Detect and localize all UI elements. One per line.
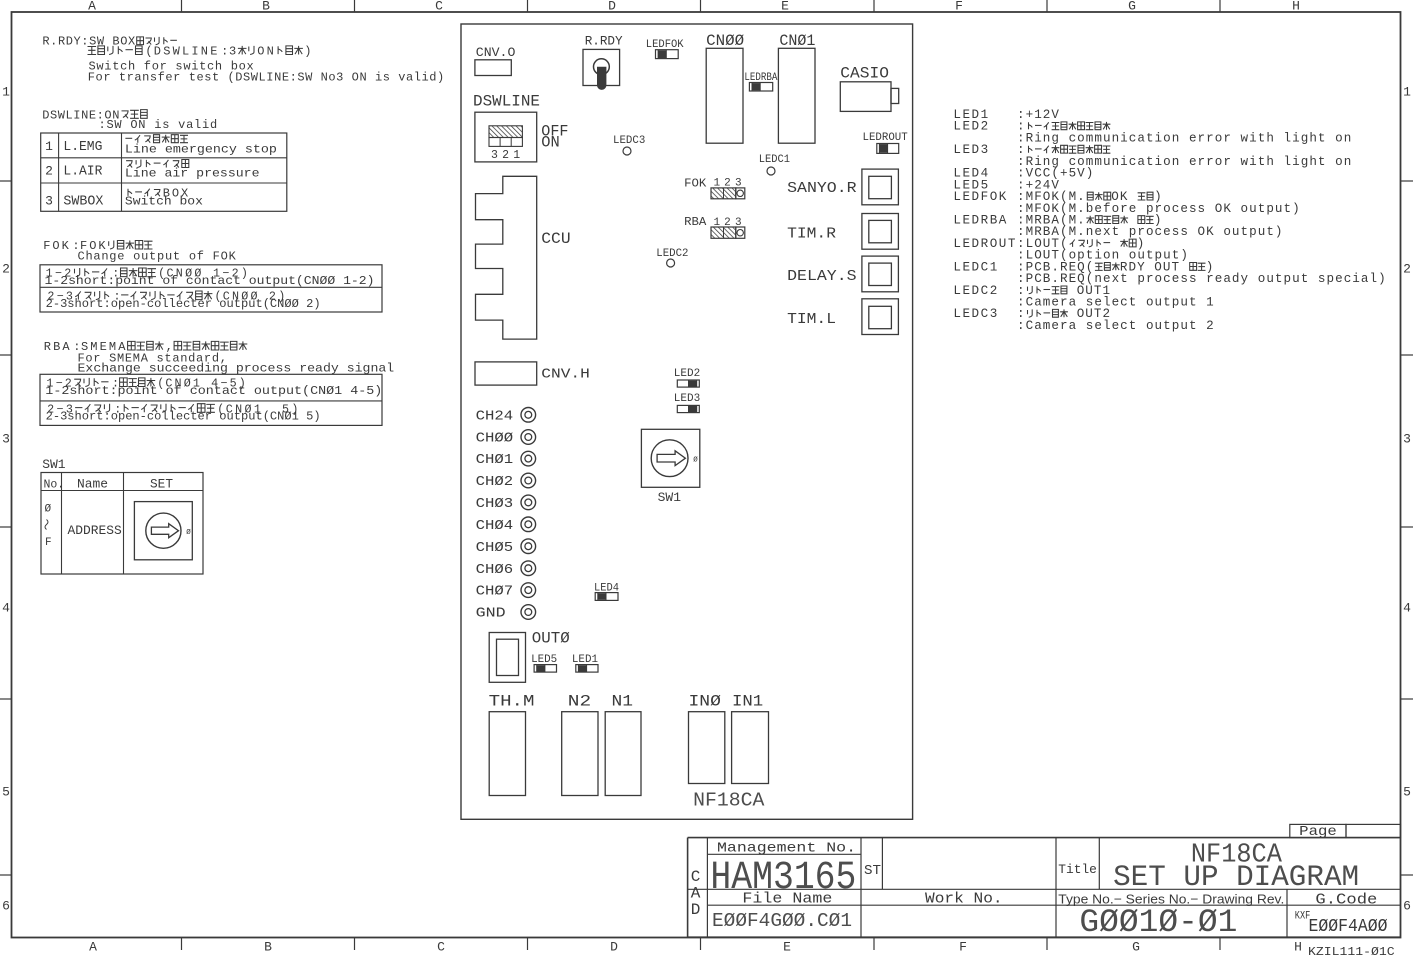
svg-text::: : xyxy=(221,45,229,59)
title block File Name xyxy=(742,892,832,908)
note R.RDY line4 xyxy=(88,71,445,85)
connector SANYO.R label xyxy=(787,180,857,197)
svg-text:LED3: LED3 xyxy=(953,143,989,157)
svg-text:SW1: SW1 xyxy=(658,490,682,505)
svg-text:NF18CA: NF18CA xyxy=(693,790,765,812)
svg-text:(: ( xyxy=(145,45,153,59)
svg-text:N1: N1 xyxy=(612,693,634,711)
connector TIM.R label xyxy=(787,226,836,243)
svg-text:3: 3 xyxy=(229,45,238,59)
dip switch OFF ON labels xyxy=(541,122,568,151)
svg-text:2: 2 xyxy=(1403,262,1411,277)
jumper RBA label xyxy=(684,215,742,229)
note R.RDY line1 xyxy=(42,35,177,49)
dip switch DSWLINE label xyxy=(473,93,540,111)
title block Management No. xyxy=(717,841,856,857)
svg-text:TIM.L: TIM.L xyxy=(787,311,836,328)
svg-text:Change output of FOK: Change output of FOK xyxy=(78,249,237,263)
svg-text:L.AIR: L.AIR xyxy=(63,165,102,180)
svg-text:ADDRESS: ADDRESS xyxy=(68,523,123,538)
table DSWLINE row1 xyxy=(45,135,277,157)
svg-text:5: 5 xyxy=(1403,785,1411,800)
legend LEDROUT jp xyxy=(953,237,1145,251)
title NF18CA xyxy=(1191,841,1283,871)
LED LED1 label xyxy=(572,654,598,666)
legend LEDRBA jp xyxy=(953,214,1162,228)
svg-text:Title: Title xyxy=(1058,862,1097,877)
title block G code value xyxy=(1309,917,1388,937)
table SW1 header xyxy=(44,477,174,492)
svg-text:DSWLINE: DSWLINE xyxy=(154,45,220,59)
connector CN00 label xyxy=(706,32,744,50)
svg-text:2: 2 xyxy=(45,164,53,179)
dip switch DSWLINE xyxy=(475,112,537,162)
svg-text:R.RDY: R.RDY xyxy=(585,34,623,49)
LED LEDRBA xyxy=(749,83,772,92)
svg-text:FOK: FOK xyxy=(43,239,71,253)
svg-text:CNØØ: CNØØ xyxy=(706,32,744,50)
svg-text:SWBOX: SWBOX xyxy=(63,194,103,209)
svg-text:RBA: RBA xyxy=(44,340,72,354)
document number KZIL111-01C xyxy=(1308,945,1395,958)
svg-text:2: 2 xyxy=(2,262,10,277)
legend LED1 xyxy=(953,108,1060,122)
LED LEDFOK xyxy=(656,50,679,59)
svg-text:A: A xyxy=(691,885,701,903)
svg-text:EØØF4AØØ: EØØF4AØØ xyxy=(1309,917,1388,937)
connector SANYO.R xyxy=(862,169,899,205)
test point LEDC2 label xyxy=(656,248,688,260)
connector N2 label xyxy=(568,693,591,711)
title block drawing number xyxy=(1079,904,1237,941)
connector DELAY.S xyxy=(862,256,899,292)
PCB board outline xyxy=(461,24,913,819)
jumper FOK label xyxy=(684,177,742,191)
svg-text:1: 1 xyxy=(1403,85,1411,100)
svg-text:LEDC3: LEDC3 xyxy=(613,135,645,147)
svg-text:G: G xyxy=(1132,940,1140,955)
connector IN1 label xyxy=(732,693,763,711)
svg-text:Exchange succeeding process re: Exchange succeeding process ready signal xyxy=(78,361,395,375)
LED LED5 xyxy=(534,665,556,673)
svg-text:D: D xyxy=(610,940,618,955)
svg-text:5: 5 xyxy=(2,785,10,800)
svg-text:B: B xyxy=(262,0,270,14)
board name NF18CA xyxy=(693,790,765,812)
connector CNV.H xyxy=(475,362,537,385)
label SW1 table xyxy=(42,457,66,472)
test pad CH24 xyxy=(521,408,536,423)
svg-text:File Name: File Name xyxy=(742,892,832,908)
svg-text:N2: N2 xyxy=(568,693,591,711)
svg-text:Work No.: Work No. xyxy=(925,892,1003,908)
svg-text:G.Code: G.Code xyxy=(1315,893,1377,909)
svg-text:TH.M: TH.M xyxy=(489,693,535,711)
svg-text:F: F xyxy=(955,0,963,14)
legend LEDFOK jp xyxy=(953,190,1162,204)
svg-text:SET: SET xyxy=(150,477,173,492)
svg-text:Ø: Ø xyxy=(186,528,191,537)
legend LED5 xyxy=(953,178,1060,192)
svg-text:ON: ON xyxy=(257,45,276,59)
title block Title label xyxy=(1058,862,1097,877)
test pad CH03 label xyxy=(476,496,514,512)
svg-text:Name: Name xyxy=(77,477,108,492)
svg-text:LEDROUT: LEDROUT xyxy=(953,237,1017,251)
grid column letters bottom xyxy=(89,940,1302,955)
page box xyxy=(1290,824,1401,840)
svg-text:ST: ST xyxy=(864,863,881,879)
connector IN0 xyxy=(689,712,725,784)
svg-text:Line air pressure: Line air pressure xyxy=(125,167,260,181)
svg-text:3: 3 xyxy=(491,149,498,162)
connector N1 xyxy=(605,712,641,796)
svg-text:2: 2 xyxy=(502,149,509,162)
legend LEDC1 en xyxy=(1017,272,1387,286)
svg-text:LED3: LED3 xyxy=(674,393,700,405)
legend LEDC3 en xyxy=(1017,319,1215,333)
note FOK line2 xyxy=(78,249,237,263)
svg-text:CHØØ: CHØØ xyxy=(476,431,514,447)
title block Work No. xyxy=(925,892,1003,908)
svg-text:C: C xyxy=(691,868,701,886)
svg-text:CCU: CCU xyxy=(541,230,570,248)
LED LED4 label xyxy=(594,582,619,594)
note RBA line3 xyxy=(78,361,395,375)
svg-text:OUTØ: OUTØ xyxy=(532,630,570,648)
connector CN01 label xyxy=(779,32,815,50)
test pad GND label xyxy=(476,606,506,622)
svg-text:CNØ1: CNØ1 xyxy=(779,32,815,50)
test point LEDC3 label xyxy=(613,135,645,147)
test pad CH02 xyxy=(521,473,536,488)
svg-text:Ø: Ø xyxy=(45,504,52,516)
svg-text:DELAY.S: DELAY.S xyxy=(787,268,857,285)
table FOK cell2 xyxy=(46,290,321,311)
table FOK cell1 xyxy=(45,267,375,288)
connector CN00 xyxy=(706,48,743,143)
svg-text:3: 3 xyxy=(45,193,53,208)
table SW1 body text xyxy=(45,504,123,549)
svg-text:Ø: Ø xyxy=(693,456,698,465)
svg-text:SET UP DIAGRAM: SET UP DIAGRAM xyxy=(1113,861,1359,895)
svg-text:2-3short:open-collecter output: 2-3short:open-collecter output(CNØ1 5) xyxy=(46,410,321,424)
svg-text:1: 1 xyxy=(45,139,53,154)
svg-text:For transfer test (DSWLINE:SW: For transfer test (DSWLINE:SW No3 ON is … xyxy=(88,71,445,85)
svg-text:L.EMG: L.EMG xyxy=(63,140,102,155)
svg-text::Camera select output 2: :Camera select output 2 xyxy=(1017,319,1215,333)
legend LED2 jp xyxy=(953,120,1110,134)
svg-text:E: E xyxy=(781,0,789,14)
svg-text::Camera select output 1: :Camera select output 1 xyxy=(1017,296,1215,310)
svg-text:SW1: SW1 xyxy=(42,457,66,472)
svg-text:LEDRBA: LEDRBA xyxy=(953,214,1007,228)
connector TH.M label xyxy=(489,693,535,711)
rotary switch SW1 xyxy=(641,429,699,487)
test pad CH00 label xyxy=(476,431,514,447)
svg-text:4: 4 xyxy=(2,601,10,616)
note R.RDY line2 xyxy=(88,45,312,59)
connector CN01 xyxy=(778,48,815,143)
title block ST xyxy=(864,863,881,879)
svg-text:INØ: INØ xyxy=(689,693,721,711)
svg-text::Ring communication error with: :Ring communication error with light on xyxy=(1017,131,1352,145)
svg-text:CHØ3: CHØ3 xyxy=(476,496,514,512)
connector OUT0 xyxy=(489,633,525,683)
svg-text:EØØF4GØØ.CØ1: EØØF4GØØ.CØ1 xyxy=(712,910,852,932)
test point LEDC1 label xyxy=(759,154,790,166)
toggle switch R.RDY label xyxy=(585,34,623,49)
connector TIM.L xyxy=(862,299,899,335)
svg-text:CNV.H: CNV.H xyxy=(541,367,590,382)
svg-text:H: H xyxy=(1292,0,1300,14)
grid row numbers left xyxy=(2,85,10,914)
note RBA line2 xyxy=(78,351,228,365)
test pad CH05 xyxy=(521,539,536,554)
connector N2 xyxy=(562,712,598,796)
test pad CH07 label xyxy=(476,584,514,600)
test pad CH04 label xyxy=(476,518,514,534)
svg-text:F: F xyxy=(45,537,52,549)
title block KXF xyxy=(1295,911,1311,923)
svg-text:LEDROUT: LEDROUT xyxy=(863,132,909,144)
test pad CH03 xyxy=(521,495,536,510)
table RBA grid xyxy=(40,374,382,425)
connector CASIO label xyxy=(840,65,889,83)
test pad CH06 xyxy=(521,561,536,576)
legend LEDC2 jp xyxy=(953,284,1111,298)
svg-text:SANYO.R: SANYO.R xyxy=(787,180,857,197)
title SET UP DIAGRAM xyxy=(1113,861,1359,895)
connector IN0 label xyxy=(689,693,721,711)
grid row numbers right xyxy=(1403,85,1411,914)
legend LEDROUT en xyxy=(1017,249,1189,263)
test point LEDC1 xyxy=(767,167,775,175)
svg-text:1: 1 xyxy=(2,85,10,100)
svg-text:GND: GND xyxy=(476,606,506,622)
svg-text:ON: ON xyxy=(541,133,560,151)
svg-text:D: D xyxy=(691,901,701,919)
svg-text:3: 3 xyxy=(1403,432,1411,447)
connector CNV.O xyxy=(475,60,511,76)
legend LEDC1 jp xyxy=(953,260,1214,274)
svg-text:C: C xyxy=(435,0,443,14)
connector CNV.O label xyxy=(476,45,516,60)
title block G.Code xyxy=(1315,893,1377,909)
svg-text:IN1: IN1 xyxy=(732,693,763,711)
note RBA line1 xyxy=(44,340,248,354)
svg-text:CHØ7: CHØ7 xyxy=(476,584,514,600)
legend LED3 en xyxy=(1017,155,1352,169)
LED LED2 label xyxy=(674,368,700,380)
LED LEDFOK label xyxy=(646,39,684,51)
test pad GND xyxy=(521,605,536,620)
legend LEDFOK en xyxy=(1017,202,1301,216)
table DSWLINE row3 xyxy=(45,186,203,209)
svg-text:C: C xyxy=(437,940,445,955)
legend LED3 jp xyxy=(953,143,1110,157)
connector CASIO xyxy=(840,82,898,112)
legend LED4 xyxy=(953,167,1094,181)
svg-text:LEDC3: LEDC3 xyxy=(953,307,998,321)
svg-text:CHØ1: CHØ1 xyxy=(476,452,514,468)
jumper RBA xyxy=(711,227,745,238)
svg-text:1: 1 xyxy=(513,149,520,162)
LED LEDRBA label xyxy=(744,72,777,84)
title block file name value xyxy=(712,910,852,932)
svg-text:CH24: CH24 xyxy=(476,408,514,424)
legend LEDC3 jp xyxy=(953,307,1111,321)
svg-text:6: 6 xyxy=(1403,899,1411,914)
svg-text:CASIO: CASIO xyxy=(840,65,889,83)
svg-text:1-2short:point of contact outp: 1-2short:point of contact output(CNØ1 4-… xyxy=(45,384,382,398)
connector CCU label xyxy=(541,230,570,248)
svg-text:): ) xyxy=(304,45,312,59)
svg-text:LEDC1: LEDC1 xyxy=(953,260,998,274)
jumper FOK xyxy=(711,188,745,199)
svg-text:6: 6 xyxy=(2,899,10,914)
svg-text:B: B xyxy=(264,940,272,955)
svg-text:No.: No. xyxy=(44,479,65,492)
svg-text::SW ON is valid: :SW ON is valid xyxy=(99,118,218,132)
legend LEDC2 en xyxy=(1017,296,1215,310)
test point LEDC2 xyxy=(667,259,675,267)
svg-text:RBA: RBA xyxy=(684,215,707,229)
test pad CH05 label xyxy=(476,540,514,556)
title block CAD xyxy=(691,868,701,919)
svg-text:LED2: LED2 xyxy=(953,120,989,134)
svg-text:3: 3 xyxy=(2,432,10,447)
connector IN1 xyxy=(732,712,769,784)
table DSWLINE row2 xyxy=(45,160,259,181)
LED LEDROUT label xyxy=(863,132,909,144)
connector OUT0 label xyxy=(532,630,570,648)
connector TIM.R xyxy=(862,214,899,250)
svg-text:H: H xyxy=(1294,940,1302,955)
svg-text:Management No.: Management No. xyxy=(717,841,856,857)
test pad CH07 xyxy=(521,583,536,598)
svg-text:Line emergency stop: Line emergency stop xyxy=(125,142,277,156)
connector N1 label xyxy=(612,693,634,711)
table RBA cell2 xyxy=(46,402,321,423)
legend LEDRBA en xyxy=(1017,225,1284,239)
test pad CH00 xyxy=(521,430,536,445)
note R.RDY line3 xyxy=(89,60,255,74)
svg-text:KZIL111-Ø1C: KZIL111-Ø1C xyxy=(1308,945,1395,958)
test pad CH06 label xyxy=(476,562,514,578)
svg-text:E: E xyxy=(783,940,791,955)
grid column letters top xyxy=(88,0,1300,14)
svg-text:LEDC2: LEDC2 xyxy=(953,284,998,298)
svg-text:CHØ5: CHØ5 xyxy=(476,540,514,556)
svg-text:F: F xyxy=(959,940,967,955)
svg-text:CHØ2: CHØ2 xyxy=(476,474,514,490)
svg-text:A: A xyxy=(88,0,96,14)
toggle switch R.RDY xyxy=(583,49,620,90)
LED LED2 xyxy=(677,380,699,387)
connector CCU xyxy=(476,176,537,339)
svg-text:LEDC2: LEDC2 xyxy=(656,248,688,260)
svg-text:A: A xyxy=(89,940,97,955)
svg-text:Switch box: Switch box xyxy=(125,195,203,209)
title block Type Series Drawing xyxy=(1058,892,1284,907)
table DSWLINE grid xyxy=(41,133,287,211)
connector TIM.L label xyxy=(787,311,836,328)
LED LED1 xyxy=(576,665,598,673)
test pad CH04 xyxy=(521,517,536,532)
svg-text:G: G xyxy=(1128,0,1136,14)
svg-text:CHØ4: CHØ4 xyxy=(476,518,514,534)
LED LED4 xyxy=(595,593,618,601)
svg-text:2-3short:open-collecter output: 2-3short:open-collecter output(CNØØ 2) xyxy=(46,297,321,311)
rotary switch SW1 label xyxy=(658,490,682,505)
test pad CH01 xyxy=(521,451,536,466)
svg-text:4: 4 xyxy=(1403,601,1411,616)
rotary switch symbol in SW1 table xyxy=(134,502,192,560)
svg-text:LEDC1: LEDC1 xyxy=(759,154,790,166)
test point LEDC3 xyxy=(623,147,631,155)
svg-text:DSWLINE: DSWLINE xyxy=(473,93,540,111)
title block HAM3165 xyxy=(710,856,856,901)
svg-text:TIM.R: TIM.R xyxy=(787,226,836,243)
LED LED3 xyxy=(677,405,699,412)
table FOK grid xyxy=(40,265,382,312)
test pad CH01 label xyxy=(476,452,514,468)
test pad CH02 label xyxy=(476,474,514,490)
svg-text:1-2short:point of contact outp: 1-2short:point of contact output(CNØØ 1-… xyxy=(45,274,375,288)
svg-text:D: D xyxy=(608,0,616,14)
note FOK line1 xyxy=(43,239,152,253)
LED LED3 label xyxy=(674,393,700,405)
table RBA cell1 xyxy=(45,377,382,398)
svg-text:LED2: LED2 xyxy=(674,368,700,380)
connector DELAY.S label xyxy=(787,268,857,285)
LED LEDROUT xyxy=(877,144,899,154)
svg-text:CHØ6: CHØ6 xyxy=(476,562,514,578)
test pad CH24 label xyxy=(476,408,514,424)
svg-text:GØØ1Ø-Ø1: GØØ1Ø-Ø1 xyxy=(1079,904,1237,941)
note DSWLINE line1 xyxy=(42,108,147,122)
svg-text:FOK: FOK xyxy=(684,177,707,191)
connector TH.M xyxy=(489,712,525,796)
svg-text:LEDFOK: LEDFOK xyxy=(953,190,1007,204)
legend LED2 en xyxy=(1017,131,1352,145)
connector CNV.H label xyxy=(541,367,590,382)
table SW1 grid xyxy=(41,473,203,575)
note DSWLINE line2 xyxy=(99,118,218,132)
title block grid xyxy=(688,838,1401,938)
svg-text:CNV.O: CNV.O xyxy=(476,45,516,60)
LED LED5 label xyxy=(531,654,557,666)
